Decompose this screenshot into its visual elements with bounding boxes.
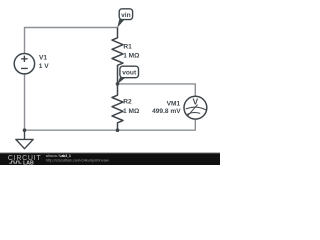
svg-text:1 MΩ: 1 MΩ — [123, 53, 140, 60]
svg-text:LAB: LAB — [23, 160, 34, 165]
svg-text:http://circuitlab.com/c4ku/lym: http://circuitlab.com/c4ku/lym0nvaw — [46, 158, 109, 163]
footer logo waveform — [9, 161, 21, 163]
wire: V1 bottom lead down to bottom rail — [24, 74, 26, 130]
svg-text:R1: R1 — [123, 44, 132, 51]
svg-text:VM1: VM1 — [167, 101, 181, 108]
svg-text:vout: vout — [122, 70, 137, 77]
svg-text:1 MΩ: 1 MΩ — [123, 108, 140, 115]
footer bar — [0, 153, 220, 166]
resistor R1 — [112, 28, 123, 84]
junction dot at R2 bottom — [116, 128, 120, 132]
resistor R2 — [112, 84, 123, 130]
svg-text:499.8 mV: 499.8 mV — [152, 108, 181, 115]
ground — [16, 130, 33, 149]
svg-text:1 V: 1 V — [39, 63, 49, 70]
wire bottom rail — [25, 120, 196, 130]
junction dot at ground node — [23, 128, 27, 132]
svg-text:V1: V1 — [39, 55, 47, 62]
voltmeter VM1 — [184, 96, 207, 119]
wire top: V1 top to vin corner — [25, 28, 118, 54]
node flag vin — [117, 19, 124, 27]
svg-text:vin: vin — [121, 12, 131, 19]
wire mid: vout to meter top — [118, 84, 196, 96]
voltage source V1 — [14, 54, 34, 74]
junction dot at vout node — [116, 82, 120, 86]
node flag vout — [117, 78, 125, 85]
svg-text:R2: R2 — [123, 99, 132, 106]
